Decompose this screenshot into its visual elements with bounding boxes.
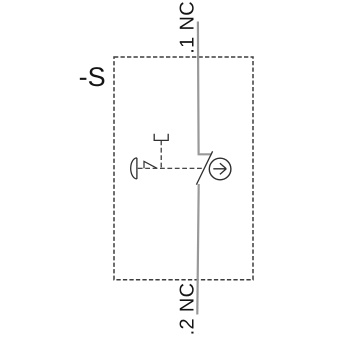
mechanical link horizontal dashed — [138, 167, 202, 169]
wire terminal .2 (bottom) — [197, 184, 198, 315]
positive-opening symbol circle — [209, 158, 231, 180]
svg-text:.1 NC: .1 NC — [176, 1, 198, 54]
wire terminal .1 (top) with fixed contact tick — [198, 22, 212, 155]
mechanical link vertical dashed — [160, 140, 162, 168]
latching detent symbol — [144, 161, 157, 168]
positive-opening arrow — [213, 163, 226, 174]
NC contact moving blade — [196, 151, 212, 184]
mushroom head actuator — [131, 158, 137, 179]
svg-text:.2 NC: .2 NC — [176, 283, 198, 336]
reset bracket symbol — [154, 134, 168, 141]
enclosure dashed boundary — [114, 57, 253, 280]
svg-text:-S: -S — [79, 62, 106, 92]
